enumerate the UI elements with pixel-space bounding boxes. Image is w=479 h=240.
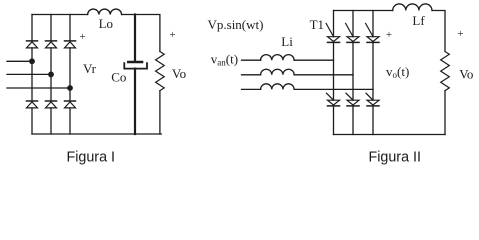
diode D5 triangle xyxy=(46,102,57,108)
inductor Li phase 2 xyxy=(261,69,295,75)
wire: phase input b xyxy=(7,73,51,75)
wire: Fig I top rail left segment xyxy=(32,14,88,16)
wire: thyristor column 2 middle xyxy=(352,42,354,100)
thyristor T2 cathode bar xyxy=(367,105,379,107)
diode D5 cathode bar xyxy=(46,100,57,102)
wire: phase input a xyxy=(7,60,32,62)
wire: Fig I bottom rail xyxy=(32,133,161,135)
diode D2 cathode bar xyxy=(46,40,57,42)
wire: capacitor branch upper (bold) xyxy=(134,15,136,62)
inductor Li phase 3 xyxy=(261,84,295,90)
resistor load Fig I zigzag xyxy=(156,52,165,91)
diode D2 triangle xyxy=(46,42,57,48)
capacitor Co bottom plate xyxy=(124,63,147,68)
wire: thyristor column 3 top xyxy=(372,11,374,37)
wire: thyristor column 3 middle xyxy=(372,42,374,100)
diode D6 triangle xyxy=(65,102,76,108)
diode D3 cathode bar xyxy=(65,40,76,42)
svg-text:Li: Li xyxy=(281,34,293,49)
thyristor T4 cathode bar xyxy=(328,105,340,107)
svg-text:T1: T1 xyxy=(310,17,324,32)
thyristor T5 gate xyxy=(366,23,373,36)
diode D1 triangle xyxy=(27,42,38,48)
wire: Fig II top rail right segment and right branch down xyxy=(432,11,445,52)
diode D4 triangle xyxy=(27,102,38,108)
diode D6 cathode bar xyxy=(65,100,76,102)
wire: Fig I top rail right segment and right branch down xyxy=(122,15,160,52)
wire: Fig II phase 2 right xyxy=(294,74,353,76)
wire: Fig II phase 3 right xyxy=(294,88,373,90)
node c junction dot xyxy=(67,85,73,91)
svg-text:vo(t): vo(t) xyxy=(386,64,409,80)
wire: Fig II bridge top rail xyxy=(334,10,393,12)
wire: thyristor column 1 top xyxy=(333,11,335,37)
wire: Fig I column 1 middle xyxy=(31,48,33,101)
thyristor T1 triangle xyxy=(328,37,340,42)
svg-text:Vo: Vo xyxy=(459,66,473,81)
wire: thyristor column 1 middle xyxy=(333,42,335,100)
svg-text:Co: Co xyxy=(111,69,126,84)
wire: Fig II bottom rail xyxy=(334,134,446,136)
svg-text:+: + xyxy=(169,29,175,41)
thyristor T5 triangle xyxy=(367,37,379,42)
wire: below Fig II resistor xyxy=(444,91,446,135)
wire: Fig I column 2 middle xyxy=(50,48,52,101)
thyristor T6 cathode bar xyxy=(347,105,359,107)
wire: thyristor column 2 top xyxy=(352,11,354,37)
thyristor T4 gate xyxy=(327,93,334,100)
thyristor T6 triangle xyxy=(347,100,359,105)
wire: thyristor column 2 bottom xyxy=(352,106,354,135)
thyristor T1 gate xyxy=(326,23,333,36)
svg-text:Vr: Vr xyxy=(83,61,97,76)
svg-text:Lo: Lo xyxy=(99,16,113,31)
thyristor T2 triangle xyxy=(367,100,379,105)
thyristor T5 cathode bar xyxy=(367,41,379,43)
wire: Fig I column 2 bottom xyxy=(50,108,52,134)
svg-text:+: + xyxy=(386,29,392,41)
wire: thyristor column 3 bottom xyxy=(372,106,374,135)
capacitor Co top plate xyxy=(128,61,142,64)
wire: Fig II phase 2 left xyxy=(242,74,261,76)
svg-text:Lf: Lf xyxy=(412,13,425,28)
inductor Lf xyxy=(393,4,432,11)
wire: Fig II phase 3 left xyxy=(242,88,261,90)
diode D3 triangle xyxy=(65,42,76,48)
wire: thyristor column 1 bottom xyxy=(333,106,335,135)
inductor Lo xyxy=(88,9,122,14)
thyristor T6 gate xyxy=(346,93,353,100)
svg-text:Vp.sin(wt): Vp.sin(wt) xyxy=(208,17,264,32)
svg-text:van(t): van(t) xyxy=(211,52,238,68)
wire: Fig I column 3 bottom xyxy=(69,108,71,134)
node b junction dot xyxy=(48,72,54,78)
svg-text:Figura I: Figura I xyxy=(67,150,115,166)
wire: capacitor branch lower (bold) xyxy=(134,69,136,134)
thyristor T3 cathode bar xyxy=(347,41,359,43)
wire: phase input c xyxy=(7,87,70,89)
wire: Fig I column 3 middle xyxy=(69,48,71,101)
wire: Fig I column 1 top xyxy=(31,15,33,41)
node a junction dot xyxy=(29,58,35,64)
wire: below Fig I resistor xyxy=(159,91,161,134)
svg-text:Vo: Vo xyxy=(172,66,186,81)
diode D4 cathode bar xyxy=(27,100,38,102)
svg-text:+: + xyxy=(457,28,463,40)
svg-text:Figura II: Figura II xyxy=(369,150,421,166)
thyristor T1 cathode bar xyxy=(328,41,340,43)
wire: Fig I column 3 top xyxy=(69,15,71,41)
diode D1 cathode bar xyxy=(27,40,38,42)
wire: Fig II phase 1 right xyxy=(294,59,333,61)
inductor Li phase 1 xyxy=(261,55,295,61)
resistor load Fig II zigzag xyxy=(441,52,450,91)
wire: Fig II phase 1 left xyxy=(242,59,261,61)
thyristor T4 triangle xyxy=(328,100,340,105)
wire: Fig I column 2 top xyxy=(50,15,52,41)
thyristor T3 triangle xyxy=(347,37,359,42)
wire: Fig I column 1 bottom xyxy=(31,108,33,134)
thyristor T2 gate xyxy=(366,93,373,100)
thyristor T3 gate xyxy=(346,23,353,36)
svg-text:+: + xyxy=(79,31,85,43)
